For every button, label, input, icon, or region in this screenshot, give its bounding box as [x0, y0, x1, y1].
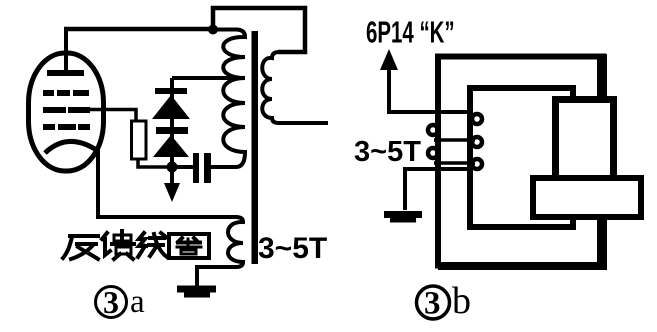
svg-text:3: 3 [424, 286, 441, 322]
tube grid row 2 [43, 107, 90, 113]
svg-text:3: 3 [103, 284, 119, 320]
char 圈 [169, 234, 209, 258]
tube cathode arc [45, 141, 98, 153]
ground b [384, 211, 422, 223]
char 线 [138, 233, 167, 257]
label circled 3 a [96, 284, 146, 320]
wire node B to capacitor [172, 165, 193, 169]
svg-text:3~5T: 3~5T [354, 136, 421, 168]
char 馈 [102, 231, 134, 259]
wire tap to diodes [172, 76, 243, 80]
transformer core [252, 31, 259, 264]
core center leg rectangle [556, 100, 614, 181]
char 反 [63, 236, 98, 259]
svg-text:6P14 “K”: 6P14 “K” [366, 14, 455, 49]
transformer T1 primary winding [210, 30, 245, 168]
ground a [177, 286, 216, 298]
label circled 3 b [417, 280, 472, 322]
diode chain wire [170, 78, 174, 165]
label feedback coil (反馈线圈) [63, 231, 209, 259]
diode D1 [152, 95, 190, 119]
inner coil rectangle [470, 88, 573, 227]
feedback winding bottom lead [405, 169, 469, 210]
diode D2 [153, 135, 189, 157]
node A junction dot [208, 25, 218, 35]
wire capacitor to primary bottom [211, 165, 212, 169]
svg-text:a: a [130, 284, 145, 320]
tube V1 envelope [29, 53, 104, 171]
tube grid row 1 [43, 90, 89, 96]
resistor R1 grid wire [88, 110, 136, 122]
feedback coil L1 [197, 217, 243, 286]
tube plate [47, 29, 84, 76]
diode D1 cathode bar [155, 88, 187, 94]
arrow to 6P14 cathode [380, 49, 470, 112]
tube grid row 3 [43, 124, 90, 130]
wire plate to node A [64, 27, 213, 32]
svg-text:b: b [452, 280, 471, 322]
node B junction dot [167, 162, 178, 173]
outer coil rectangle [438, 54, 607, 270]
resistor R1 [132, 121, 147, 159]
transformer T1 secondary winding [262, 52, 328, 123]
arrow to cathode [164, 167, 180, 202]
resistor R1 bottom lead [138, 159, 168, 167]
capacitor C1 [193, 153, 211, 183]
svg-text:3~5T: 3~5T [258, 232, 327, 265]
feedback winding 3~5T turns [389, 112, 482, 169]
cathode lead and wire to feedback coil [98, 146, 236, 217]
wire node A to top rail to secondary top [213, 8, 305, 52]
diode D2 cathode bar [156, 127, 188, 134]
core lamination rectangle [533, 178, 641, 217]
